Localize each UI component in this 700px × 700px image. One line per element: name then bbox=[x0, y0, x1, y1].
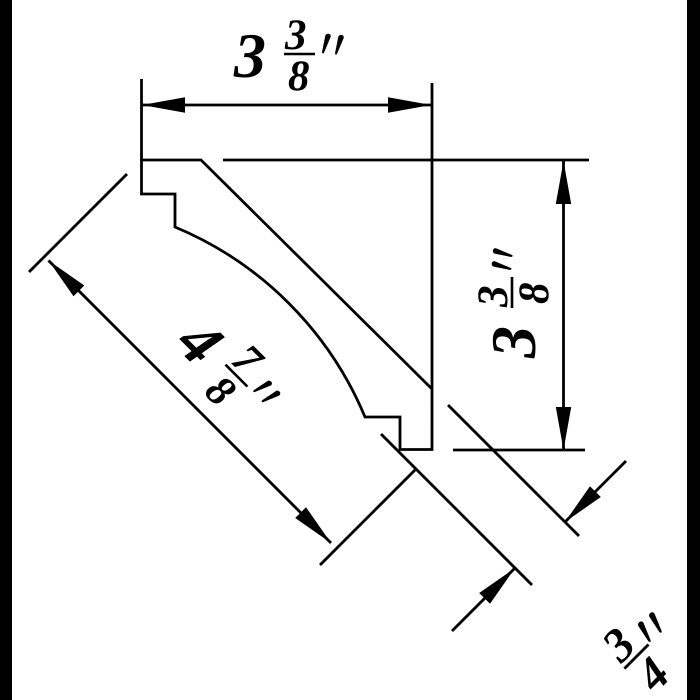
right border bar bbox=[687, 0, 700, 700]
back extension line (3/4 dim) bbox=[448, 405, 579, 536]
svg-text:3: 3 bbox=[470, 286, 517, 309]
svg-text:8: 8 bbox=[288, 53, 310, 100]
upper 3/4 arrow line bbox=[565, 461, 626, 522]
diag ext line upper-left bbox=[29, 174, 127, 272]
svg-text:8: 8 bbox=[511, 283, 558, 305]
diag ext line lower-right bbox=[320, 470, 415, 565]
right dim bottom arrowhead bbox=[556, 407, 571, 450]
svg-text:4: 4 bbox=[626, 648, 680, 700]
lower 3/4 arrow line bbox=[452, 568, 515, 631]
diag dim lower arrowhead bbox=[295, 507, 331, 543]
right dimension line bbox=[562, 161, 565, 450]
ceiling line / top extension of right dim bbox=[223, 159, 589, 162]
left border bar bbox=[0, 0, 12, 700]
left extension line (top dim) bbox=[140, 79, 143, 160]
right wall / extension line bbox=[431, 83, 434, 389]
right dimension text 3 3/8" (rotated -90) bbox=[470, 248, 558, 359]
3/4 upper arrowhead bbox=[565, 486, 601, 522]
svg-text:3: 3 bbox=[233, 20, 266, 91]
svg-text:3: 3 bbox=[284, 12, 307, 59]
diag dim upper arrowhead bbox=[49, 261, 85, 297]
top dimension text 3 3/8" bbox=[233, 12, 344, 100]
top dim left arrowhead bbox=[142, 97, 185, 112]
diagonal dimension text 4 7/8" (rotated 45) bbox=[157, 299, 298, 440]
crown moulding profile bbox=[142, 160, 433, 450]
bottom right text 3/4" (rotated -45) bbox=[592, 593, 700, 700]
front extension line (3/4 dim) bbox=[381, 434, 532, 585]
svg-text:8: 8 bbox=[196, 367, 244, 415]
right dim top arrowhead bbox=[556, 161, 571, 204]
top dim right arrowhead bbox=[388, 97, 431, 112]
top dimension line bbox=[142, 104, 431, 107]
svg-text:3: 3 bbox=[478, 326, 549, 359]
diagonal dimension line 4 7/8 bbox=[49, 261, 332, 544]
3/4 lower arrowhead bbox=[479, 568, 515, 604]
bottom extension line of right dim bbox=[453, 449, 585, 452]
